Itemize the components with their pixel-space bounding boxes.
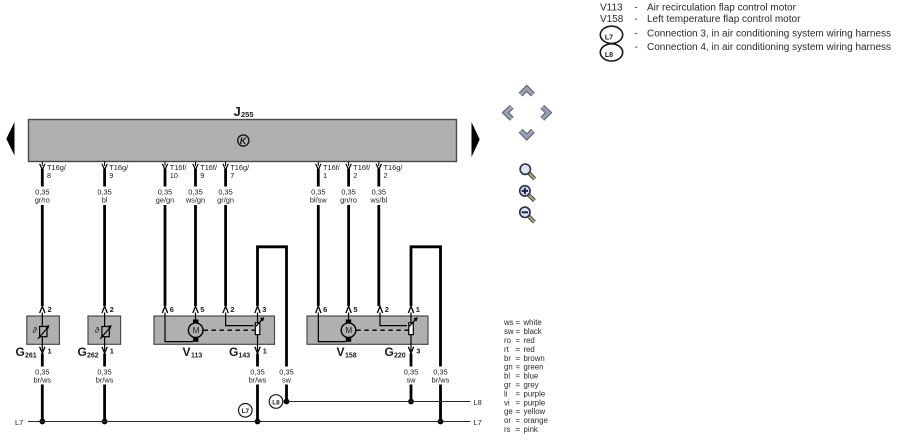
svg-text:gr: gr: [504, 381, 511, 390]
svg-text:ge/gn: ge/gn: [156, 196, 175, 205]
svg-text:=: =: [516, 381, 521, 390]
svg-text:red: red: [524, 345, 535, 354]
svg-text:grey: grey: [524, 381, 539, 390]
terminal label T16f/9: [200, 163, 218, 180]
legend entry L7 connection 3: [635, 29, 892, 40]
connection symbol L7: [239, 404, 253, 418]
svg-text:L8: L8: [474, 398, 482, 407]
nav chevron up: [521, 88, 534, 94]
internal wire pin2 to G143 wiper: [226, 313, 254, 326]
svg-text:ge: ge: [504, 407, 513, 416]
svg-text:1: 1: [323, 171, 327, 180]
zoom-out magnifier: [520, 207, 535, 222]
svg-text:=: =: [516, 354, 521, 363]
svg-text:-: -: [635, 42, 638, 53]
pin 2 of G261: [40, 305, 52, 314]
label G143: [229, 345, 250, 360]
svg-text:orange: orange: [524, 416, 548, 425]
svg-text:5: 5: [200, 305, 204, 314]
svg-text:sw: sw: [504, 327, 514, 336]
svg-text:=: =: [516, 327, 521, 336]
K symbol in J255: [238, 135, 249, 146]
motor assembly V158/G220 box: [307, 316, 428, 344]
node L8 rail: [288, 398, 482, 407]
motor V113: [188, 320, 203, 342]
svg-text:green: green: [524, 363, 544, 372]
svg-text:br: br: [504, 354, 511, 363]
svg-text:pink: pink: [524, 425, 538, 434]
wire T16f/9 from J255: [183, 162, 209, 307]
svg-text:6: 6: [170, 305, 174, 314]
nav chevron down: [521, 131, 534, 137]
svg-text:2: 2: [385, 305, 389, 314]
svg-text:2: 2: [230, 305, 234, 314]
svg-text:9: 9: [109, 171, 113, 180]
svg-text:V: V: [337, 345, 345, 359]
svg-text:=: =: [516, 416, 521, 425]
svg-text:bl: bl: [504, 372, 510, 381]
junction G262/L7: [102, 419, 108, 425]
svg-text:red: red: [524, 336, 535, 345]
svg-text:3: 3: [262, 305, 266, 314]
svg-text:ws/gn: ws/gn: [185, 196, 205, 205]
svg-text:gr/gn: gr/gn: [217, 196, 234, 205]
label G220: [385, 345, 406, 360]
svg-text:2: 2: [353, 171, 357, 180]
value label 0,35 ws/gn: [185, 188, 205, 205]
svg-text:=: =: [516, 318, 521, 327]
svg-text:9: 9: [200, 171, 204, 180]
junction sw/L8: [284, 399, 290, 405]
wire T16f/2 from J255: [336, 162, 362, 307]
svg-text:=: =: [516, 336, 521, 345]
svg-text:M: M: [193, 326, 200, 335]
internal wire pin2 to G220 wiper: [380, 313, 407, 326]
svg-text:=: =: [516, 345, 521, 354]
junction G143/L7: [255, 419, 261, 425]
svg-text:gn: gn: [504, 363, 513, 372]
nav chevron left: [506, 107, 512, 119]
value label 0,35 gr/ro: [35, 188, 50, 205]
svg-text:G: G: [229, 345, 238, 359]
wire 0,35 sw from V113 box pin3 to L8: [258, 247, 298, 402]
svg-text:-: -: [635, 14, 638, 25]
svg-text:ws/bl: ws/bl: [369, 196, 387, 205]
pin 1 of V158 box: [408, 305, 420, 314]
svg-text:Left temperature flap control: Left temperature flap control motor: [647, 14, 801, 25]
wire 0,35 br/ws from G261 pin1 to L7: [29, 354, 56, 422]
svg-text:br/ws: br/ws: [96, 376, 114, 385]
svg-text:ro: ro: [504, 336, 512, 345]
svg-text:10: 10: [170, 171, 178, 180]
junction G220-sw/L8: [408, 399, 414, 405]
terminal label T16g/7: [230, 163, 250, 180]
wire T16g/9 from J255: [95, 162, 115, 307]
wire T16f/10 from J255: [152, 162, 178, 307]
svg-text:262: 262: [87, 353, 99, 360]
label G261: [16, 345, 37, 360]
svg-text:=: =: [516, 407, 521, 416]
pin 3 of V113 box: [255, 305, 267, 314]
zoom tool magnifier: [520, 164, 535, 179]
svg-text:black: black: [524, 327, 542, 336]
svg-text:=: =: [516, 398, 521, 407]
svg-text:G: G: [385, 345, 394, 359]
legend entry L8 connection 4: [635, 42, 892, 53]
pin 6 of V113 box: [162, 305, 174, 314]
zoom-in magnifier: [520, 186, 535, 201]
internal wire pin5 to motor: [195, 313, 197, 320]
svg-text:white: white: [523, 318, 542, 327]
value label 0,35 ge/gn: [156, 188, 175, 205]
terminal label T16g/8: [47, 163, 67, 180]
nav chevron right: [542, 107, 548, 119]
internal wire pin5 to motor V158: [348, 313, 350, 320]
svg-text:158: 158: [345, 353, 357, 360]
svg-text:Air recirculation flap control: Air recirculation flap control motor: [647, 3, 797, 14]
svg-text:or: or: [504, 416, 511, 425]
svg-text:3: 3: [416, 347, 420, 356]
svg-text:L8: L8: [605, 52, 613, 59]
svg-text:-: -: [635, 29, 638, 40]
pin 2 of V158 box: [377, 305, 389, 314]
svg-text:vi: vi: [504, 398, 510, 407]
svg-text:6: 6: [323, 305, 327, 314]
svg-text:br/ws: br/ws: [33, 376, 51, 385]
svg-text:J: J: [234, 104, 241, 119]
sensor G261: [27, 313, 60, 345]
wire 0,35 br/ws from G262 pin1 to L7: [92, 354, 119, 422]
terminal label T16f/10: [170, 163, 188, 180]
dashed link V113-G143: [204, 329, 256, 331]
svg-text:rs: rs: [504, 425, 511, 434]
svg-text:1: 1: [263, 347, 267, 356]
svg-text:1: 1: [48, 347, 52, 356]
label J255: [234, 104, 254, 119]
svg-text:113: 113: [191, 353, 202, 360]
pin 1 of G261: [40, 344, 52, 355]
potentiometer G143: [255, 313, 264, 345]
svg-text:brown: brown: [524, 354, 545, 363]
wire T16f/1 from J255: [306, 162, 332, 307]
svg-text:L7: L7: [242, 408, 250, 415]
svg-text:=: =: [516, 389, 521, 398]
terminal label T16g/2: [384, 163, 404, 180]
svg-text:1: 1: [416, 305, 420, 314]
value label 0,35 bl/sw: [310, 188, 328, 205]
label V113: [183, 345, 203, 360]
svg-text:br/ws: br/ws: [249, 376, 267, 385]
pin 5 of V158 box: [346, 305, 358, 314]
svg-text:ϑ: ϑ: [95, 326, 100, 335]
legend symbol L8: [600, 44, 622, 61]
junction G261/L7: [39, 419, 45, 425]
pin 2 of V113 box: [223, 305, 235, 314]
svg-text:G: G: [16, 345, 25, 359]
svg-text:5: 5: [353, 305, 357, 314]
dashed link V158-G220: [356, 329, 408, 331]
label V158: [337, 345, 357, 360]
svg-text:gn/ro: gn/ro: [340, 196, 357, 205]
svg-text:L7: L7: [474, 418, 482, 427]
terminal label T16f/2: [353, 163, 371, 180]
svg-text:L7: L7: [605, 35, 613, 42]
svg-text:yellow: yellow: [524, 407, 546, 416]
svg-text:255: 255: [241, 110, 254, 119]
internal wire pin6 to motor V158: [318, 313, 346, 342]
wire T16g/7 from J255: [213, 162, 239, 307]
svg-text:=: =: [516, 425, 521, 434]
svg-text:sw: sw: [406, 376, 416, 385]
pin 5 of V113 box: [193, 305, 205, 314]
label G262: [78, 345, 99, 360]
svg-text:V113: V113: [600, 3, 623, 14]
left continuation arrow: [6, 122, 14, 156]
motor V158: [341, 320, 356, 342]
svg-text:gr/ro: gr/ro: [35, 196, 50, 205]
node L7 rail: [15, 418, 482, 427]
wire T16g/8 from J255: [29, 162, 56, 307]
svg-text:-: -: [635, 3, 638, 14]
svg-text:purple: purple: [524, 389, 546, 398]
svg-text:sw: sw: [282, 376, 292, 385]
legend symbol L7: [600, 26, 622, 43]
svg-text:Connection 4, in air condition: Connection 4, in air conditioning system…: [647, 42, 891, 53]
svg-text:143: 143: [239, 353, 251, 360]
junction br-ws/L7 right: [438, 419, 444, 425]
motor assembly V113/G143 box: [154, 316, 275, 344]
svg-text:blue: blue: [524, 372, 539, 381]
svg-text:ws: ws: [503, 318, 514, 327]
svg-text:8: 8: [47, 171, 51, 180]
value label 0,35 bl: [97, 188, 111, 205]
svg-text:2: 2: [110, 305, 114, 314]
colour code legend: [503, 318, 548, 434]
connection symbol L8: [269, 395, 283, 409]
value label 0,35 ws/bl: [369, 188, 387, 205]
svg-text:L8: L8: [272, 399, 280, 406]
svg-text:ϑ: ϑ: [32, 326, 37, 335]
legend entry V158: [600, 14, 801, 25]
pin 6 of V158 box: [316, 305, 328, 314]
svg-text:bl/sw: bl/sw: [310, 196, 328, 205]
svg-text:V158: V158: [600, 14, 624, 25]
pin 2 of G262: [102, 305, 114, 314]
wire 0,35 sw from G220 pin3 to L8: [401, 354, 422, 402]
svg-text:V: V: [183, 345, 191, 359]
svg-text:1: 1: [110, 347, 114, 356]
svg-text:261: 261: [25, 353, 37, 360]
value label 0,35 gr/gn: [217, 188, 234, 205]
svg-text:=: =: [516, 363, 521, 372]
svg-text:M: M: [345, 326, 352, 335]
pin 1 below G143: [255, 344, 267, 355]
svg-text:L7: L7: [15, 418, 23, 427]
wire T16g/2 from J255: [366, 162, 392, 307]
right continuation arrow: [472, 122, 480, 157]
value label 0,35 gn/ro: [340, 188, 357, 205]
terminal label T16f/1: [323, 163, 341, 180]
svg-text:2: 2: [384, 171, 388, 180]
internal wire pin6 to motor: [165, 313, 193, 342]
svg-text:br/ws: br/ws: [432, 376, 450, 385]
svg-text:rt: rt: [504, 345, 510, 354]
control unit J255 bar: [29, 120, 457, 162]
sensor G262: [88, 313, 121, 345]
pin 3 below G220: [408, 344, 420, 355]
terminal label T16g/9: [109, 163, 129, 180]
svg-text:220: 220: [394, 353, 406, 360]
wire 0,35 br/ws from G143 pin1 to L7: [244, 354, 271, 422]
svg-text:G: G: [78, 345, 87, 359]
svg-text:bl: bl: [102, 196, 108, 205]
legend entry V113: [600, 3, 797, 14]
pin 1 of G262: [102, 344, 114, 355]
svg-text:li: li: [504, 389, 508, 398]
svg-text:Connection 3, in air condition: Connection 3, in air conditioning system…: [647, 29, 891, 40]
svg-text:2: 2: [48, 305, 52, 314]
wire 0,35 br/ws from V158 box pin1 to L7: [411, 247, 454, 422]
potentiometer G220: [409, 313, 418, 345]
svg-text:purple: purple: [524, 398, 546, 407]
svg-text:=: =: [516, 372, 521, 381]
svg-text:7: 7: [230, 171, 234, 180]
